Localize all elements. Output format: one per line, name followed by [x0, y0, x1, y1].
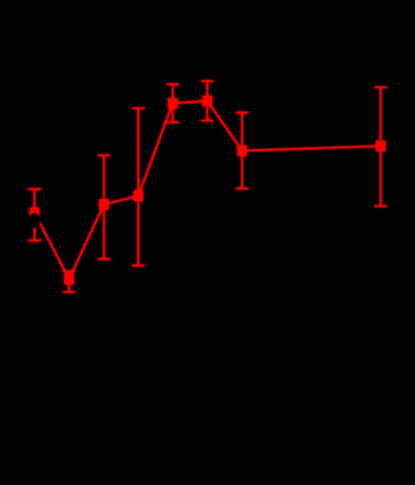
marker point 4 (square)	[134, 191, 143, 201]
error bar point 8	[374, 87, 387, 206]
marker point 1 (square)	[30, 208, 39, 218]
wire: connecting polyline through data points	[34, 101, 380, 279]
marker point 3 (square)	[99, 199, 108, 209]
marker point 6 (square)	[203, 96, 212, 106]
error bar point 1	[28, 189, 41, 241]
marker point 8 (square)	[376, 141, 385, 151]
error bar point 7	[236, 113, 249, 189]
marker point 5 (square)	[168, 98, 177, 108]
marker point 7 (square)	[237, 146, 246, 156]
error bar point 4	[132, 108, 145, 265]
marker point 2 (square)	[64, 274, 73, 284]
error bar point 5	[166, 84, 179, 122]
error bar point 2	[63, 271, 76, 292]
black circle marker occluding bottom of point 1	[28, 213, 40, 228]
error bar point 3	[98, 155, 111, 259]
error bar point 6	[201, 81, 214, 121]
